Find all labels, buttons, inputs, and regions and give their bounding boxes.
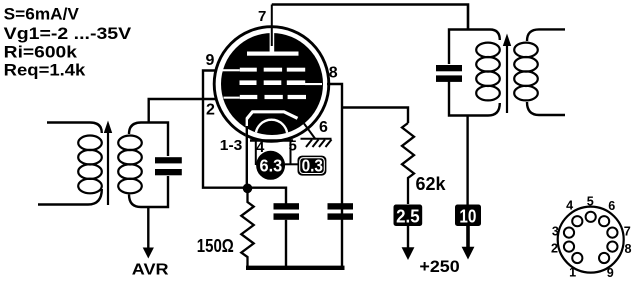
wire 2.5 to arrow: [407, 226, 409, 249]
svg-text:5: 5: [587, 195, 594, 209]
tube V1 heater arc: [256, 120, 288, 152]
socket pin 1: [572, 253, 582, 263]
wire pin 6 stub: [304, 124, 315, 139]
svg-text:9: 9: [206, 52, 215, 69]
capacitor C1 tank cap plates: [155, 157, 182, 175]
wire 10 to arrow: [466, 226, 470, 248]
svg-text:4: 4: [566, 199, 573, 213]
tube V1 anode plate: [247, 52, 299, 56]
svg-text:S=6mA/V: S=6mA/V: [4, 6, 79, 24]
tube V1 inner black disk: [221, 33, 323, 135]
socket pin 2: [564, 242, 574, 252]
wire pin 5 lead: [290, 141, 292, 165]
wire T2 tank bottom rail: [449, 76, 500, 116]
tube V1 envelope circle: [214, 27, 329, 142]
socket pin 3: [564, 228, 574, 238]
resistor R2 62k zigzag: [402, 123, 414, 204]
resistor R1 150ohm zigzag: [241, 190, 253, 267]
svg-text:1: 1: [569, 265, 576, 279]
svg-text:Ri=600k: Ri=600k: [4, 44, 78, 62]
svg-text:7: 7: [258, 8, 266, 25]
wire cathode node to bypass cap: [248, 188, 287, 204]
wire T1 tank top rail: [129, 123, 168, 157]
heater rating bubble 6.3: [256, 151, 285, 180]
socket pin 8: [607, 242, 617, 252]
socket diagram circle: [558, 207, 624, 273]
svg-text:62k: 62k: [416, 173, 447, 194]
svg-text:1-3: 1-3: [220, 137, 243, 154]
wire screen to 62k branch: [342, 108, 408, 124]
socket pin 4: [572, 216, 582, 226]
wire g1 riser to tube: [149, 99, 216, 123]
svg-text:2: 2: [206, 102, 215, 119]
tube V1 anode lead slot: [270, 33, 275, 52]
socket pin 5: [586, 212, 596, 222]
capacitor C2 cathode bypass plates: [274, 203, 300, 220]
arrow head +250 left: [402, 247, 415, 260]
inductor T1 secondary winding: [118, 136, 142, 194]
chassis hatch at pin 6: [301, 139, 332, 147]
tube V1 cathode: [247, 112, 298, 119]
svg-text:7: 7: [624, 225, 631, 239]
wire pin9 to cathode node: [203, 71, 243, 188]
heater rating box 0.3: [298, 156, 327, 176]
chassis bottom rail: [246, 266, 345, 270]
socket pin 9: [599, 253, 609, 263]
wire AVR drop: [147, 207, 149, 249]
inductor T2 secondary winding: [514, 43, 538, 101]
svg-text:2.5: 2.5: [396, 205, 420, 226]
T1 core arrow: [104, 121, 112, 206]
svg-text:+250: +250: [419, 258, 459, 276]
feed box 10: [455, 205, 481, 227]
svg-text:Req=1.4k: Req=1.4k: [4, 61, 87, 79]
svg-text:6.3: 6.3: [260, 156, 283, 176]
junction dot cathode node: [243, 184, 253, 194]
socket pin 7: [607, 228, 617, 238]
svg-text:0.3: 0.3: [302, 156, 324, 176]
svg-text:2: 2: [551, 241, 558, 255]
svg-text:6: 6: [608, 199, 615, 213]
wire C2 bottom lead: [285, 220, 287, 267]
wire pin 8 screen lead: [327, 84, 342, 266]
inductor T2 primary winding: [476, 43, 500, 101]
wire T2 secondary top lead: [527, 29, 565, 41]
svg-text:6: 6: [319, 119, 328, 136]
svg-text:3: 3: [552, 225, 559, 239]
capacitor C4 tank cap plates: [436, 65, 462, 82]
svg-text:AVR: AVR: [132, 262, 169, 279]
wire cathode lead: [246, 118, 248, 188]
arrow head +250 right: [462, 247, 475, 260]
tube V1 grid g3 row dashes: [223, 68, 306, 72]
wire T1 primary top lead: [47, 123, 102, 134]
svg-text:10: 10: [459, 205, 476, 226]
T2 core arrow: [503, 34, 511, 114]
wire T2 tank top rail: [449, 30, 500, 65]
inductor T1 primary winding: [78, 136, 102, 194]
wire 6.3 to 0.3 connector: [285, 163, 298, 165]
svg-text:8: 8: [329, 65, 338, 82]
wire T1 tank bottom rail: [129, 176, 168, 207]
svg-text:150Ω: 150Ω: [197, 235, 234, 256]
svg-text:Vg1=-2 ...-35V: Vg1=-2 ...-35V: [4, 25, 132, 43]
wire T2 bottom feed to 10 box: [466, 116, 468, 205]
wire top anode rail: [272, 5, 468, 30]
socket pin 6: [599, 216, 609, 226]
wire pin 4 lead: [255, 141, 257, 166]
AVR arrow head: [143, 248, 154, 259]
feed box 2.5: [394, 205, 423, 227]
svg-text:9: 9: [607, 266, 614, 280]
wire T2 secondary bottom lead: [527, 102, 565, 115]
wire T1 primary bottom lead: [38, 189, 102, 205]
tube V1 grid g2 row dashes: [240, 80, 323, 85]
svg-text:8: 8: [624, 242, 631, 256]
wire pin 7 anode lead: [271, 5, 273, 47]
capacitor C3 screen bypass plates: [328, 203, 354, 220]
wire heater bottom chord: [250, 139, 293, 141]
tube V1 grid g1 row dashes: [224, 95, 307, 99]
